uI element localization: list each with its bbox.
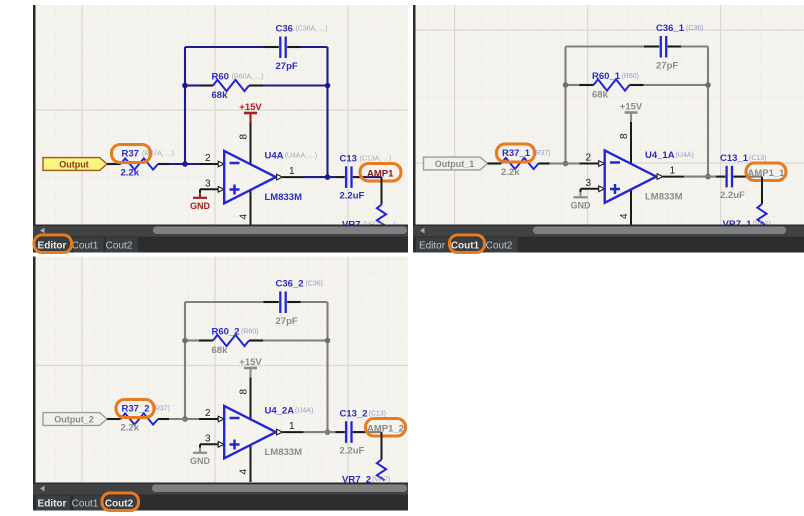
svg-text:2.2k: 2.2k (501, 167, 520, 178)
svg-text:2.2uF: 2.2uF (720, 190, 745, 201)
annotation ellipse around AMP1 (360, 164, 401, 182)
wire: feedback top net segment right (301, 46, 328, 48)
op-amp pin 1 lead (663, 176, 684, 178)
panel 1: schematic background (36, 5, 409, 225)
panel 3: tab bar (33, 495, 408, 511)
svg-text:68k: 68k (212, 345, 229, 356)
tab Cout1 (454, 238, 484, 253)
scrollbar left arrow (40, 486, 45, 492)
resistor R60_1 pins (580, 84, 594, 86)
svg-text:Cout2: Cout2 (486, 241, 513, 252)
svg-text:Cout1: Cout1 (72, 499, 99, 510)
svg-text:(C36): (C36) (686, 25, 704, 32)
svg-text:(U4AA, ...): (U4AA, ...) (285, 153, 318, 160)
svg-text:Editor: Editor (38, 499, 67, 510)
svg-text:AMP1_1: AMP1_1 (748, 168, 786, 179)
svg-text:4: 4 (619, 213, 630, 219)
svg-text:Cout2: Cout2 (106, 241, 133, 252)
svg-text:C36_1: C36_1 (656, 23, 685, 34)
scrollbar left arrow (420, 228, 425, 234)
resistor R37_1 body (501, 158, 539, 169)
scrollbar thumb (152, 485, 407, 493)
annotation ellipse around R37_1 (497, 144, 535, 162)
op-amp U4 pin 2 lead (580, 163, 600, 165)
tab Cout2 (106, 238, 138, 253)
resistor R37 body (121, 158, 159, 169)
capacitor C36_1 pins (644, 45, 659, 47)
wire: right vertical branch (707, 47, 709, 177)
plus input marker (230, 443, 240, 446)
svg-text:2.2k: 2.2k (121, 423, 140, 434)
wire: feedback top net segment right (681, 45, 708, 47)
svg-text:1: 1 (289, 166, 295, 177)
annotation ellipse around AMP1_1 (746, 163, 786, 181)
wire: R60 net right (263, 339, 328, 341)
svg-text:Output: Output (59, 160, 89, 170)
wire: net AMP1 stub (366, 431, 382, 433)
svg-text:27pF: 27pF (276, 61, 298, 72)
wire: R60 net left (185, 84, 199, 86)
annotation ellipse around AMP1_2 (366, 419, 406, 437)
wire: input net to pin 2 (550, 162, 580, 164)
pin 2 arrowhead (218, 416, 224, 422)
svg-text:Cout1: Cout1 (72, 241, 99, 252)
svg-text:Output_1: Output_1 (435, 159, 475, 169)
panel 1: left border (33, 5, 36, 253)
svg-text:R60: R60 (212, 72, 229, 83)
op-amp pin 1 lead (282, 176, 303, 178)
svg-text:(C36A, ...): (C36A, ...) (296, 26, 328, 33)
svg-text:1: 1 (670, 166, 676, 177)
pin 8 lead (630, 122, 632, 163)
pin 2 arrowhead (599, 161, 605, 167)
pin 3 arrowhead (599, 186, 605, 192)
resistor VR7 top pin (761, 177, 763, 204)
svg-text:(R60A, ...): (R60A, ...) (232, 74, 264, 81)
wire: feedback top net segment left (185, 301, 264, 303)
svg-text:2.2k: 2.2k (121, 168, 140, 179)
tab Editor (36, 496, 70, 511)
svg-text:(C13): (C13) (369, 411, 387, 418)
scrollbar left arrow (40, 228, 45, 234)
wire: feedback top net segment right (301, 301, 328, 303)
svg-text:8: 8 (239, 389, 250, 395)
svg-text:27pF: 27pF (656, 61, 678, 72)
svg-text:3: 3 (205, 178, 211, 189)
junction dots (182, 338, 188, 344)
wire: R60 net right (263, 84, 328, 86)
svg-text:2: 2 (205, 153, 211, 164)
svg-text:C36_2: C36_2 (276, 279, 304, 290)
op-amp U4 pin 3 lead (581, 188, 600, 190)
scrollbar thumb (533, 227, 786, 235)
op-amp U4 pin 2 lead (199, 418, 219, 420)
panel 1: tab bar (33, 237, 408, 253)
svg-text:GND: GND (190, 456, 211, 466)
svg-text:(U4A): (U4A) (295, 408, 313, 415)
port Output_2 (43, 413, 107, 426)
capacitor C13_2 pins (336, 431, 345, 433)
svg-text:LM833M: LM833M (265, 192, 303, 203)
op-amp U4_2 body (224, 406, 276, 458)
tab Editor (416, 238, 450, 253)
resistor R37 pins (107, 163, 121, 165)
wire: left vertical branch (184, 302, 186, 419)
svg-text:C13_2: C13_2 (340, 409, 368, 420)
svg-text:R60_1: R60_1 (592, 71, 621, 82)
svg-text:4: 4 (239, 214, 250, 220)
plus input marker (610, 188, 620, 191)
minus input marker (230, 162, 240, 165)
svg-text:2.2uF: 2.2uF (340, 191, 365, 202)
resistor R60 body (213, 80, 249, 91)
pin 4 lead (630, 190, 632, 227)
svg-text:Editor: Editor (38, 241, 67, 252)
capacitor C36 plates (279, 37, 281, 59)
svg-text:R37: R37 (122, 149, 139, 160)
ground symbol (193, 452, 207, 454)
resistor VR7_2 body (partial) (377, 460, 386, 481)
svg-text:C36: C36 (276, 24, 293, 35)
junction dots (182, 83, 188, 89)
op-amp U4 pin 3 lead (200, 188, 219, 190)
op-amp U4_1 body (605, 150, 657, 202)
svg-text:(VR7): (VR7) (372, 477, 390, 484)
annotation ellipse around active tab (102, 493, 139, 511)
port Output (43, 158, 107, 171)
tab Cout2 (106, 496, 138, 511)
svg-text:(U4A): (U4A) (676, 152, 694, 159)
svg-text:(C13): (C13) (749, 155, 767, 162)
minus input marker (230, 417, 240, 420)
svg-text:R37_1: R37_1 (502, 148, 531, 159)
svg-text:GND: GND (571, 201, 592, 211)
panel 2: schematic background (416, 5, 804, 225)
wire: R60 net left (185, 339, 199, 341)
capacitor C36_2 pins (264, 301, 279, 303)
op-amp pin 1 lead (282, 431, 303, 433)
pin 3 arrowhead (218, 187, 224, 193)
svg-text:(R60): (R60) (241, 329, 259, 336)
minus input marker (610, 161, 620, 164)
op-amp U4 pin 2 lead (199, 163, 219, 165)
capacitor C13_2 plates (345, 421, 347, 443)
plus input marker (230, 188, 240, 191)
tab Editor (36, 238, 70, 253)
port Output_1 (424, 157, 488, 170)
annotation ellipse around R37_2 (116, 400, 154, 418)
svg-text:Editor: Editor (419, 241, 446, 252)
gnd stem (199, 444, 201, 448)
svg-text:(C13A, ...): (C13A, ...) (360, 156, 392, 163)
svg-text:27pF: 27pF (276, 316, 298, 327)
wire: feedback top net segment left (185, 46, 264, 48)
svg-text:68k: 68k (592, 90, 609, 101)
svg-text:U4A: U4A (265, 151, 284, 162)
panel 2: left border (413, 5, 416, 253)
svg-text:8: 8 (239, 134, 250, 140)
wire: left vertical branch (184, 47, 186, 164)
resistor VR7 body (partial) (377, 205, 386, 226)
capacitor C36_1 plates (660, 36, 662, 58)
wire: output net to C13 (684, 176, 716, 178)
annotation ellipse around R37 (112, 145, 151, 163)
svg-text:2: 2 (205, 408, 211, 419)
resistor VR7 top pin (381, 177, 383, 204)
panel 2: horizontal scrollbar (413, 225, 804, 237)
panel 2: tab bar (413, 237, 804, 253)
ground symbol (193, 197, 207, 199)
svg-text:4: 4 (239, 469, 250, 475)
svg-text:R60_2: R60_2 (212, 327, 240, 338)
wire: R60 net left (566, 84, 580, 86)
svg-text:GND: GND (190, 201, 211, 211)
svg-text:68k: 68k (212, 90, 229, 101)
wire: left vertical branch (564, 47, 566, 164)
svg-text:Cout2: Cout2 (105, 499, 134, 510)
annotation ellipse around active tab (450, 235, 485, 253)
svg-text:AMP1_2: AMP1_2 (367, 423, 404, 434)
panel 3: schematic background (36, 257, 409, 483)
pin 1 arrowhead (277, 174, 283, 180)
svg-text:Output_2: Output_2 (54, 415, 94, 425)
svg-text:R37_2: R37_2 (122, 404, 150, 415)
capacitor C36_2 plates (279, 292, 281, 314)
resistor R60_2 body (213, 335, 249, 346)
svg-text:3: 3 (585, 178, 591, 189)
gnd stem (199, 189, 201, 193)
pin 8 lead (250, 378, 252, 419)
resistor R60_1 body (594, 79, 630, 90)
capacitor C13 plates (345, 166, 347, 188)
capacitor C36 pins (264, 46, 279, 48)
svg-text:+15V: +15V (620, 102, 643, 113)
pin 3 arrowhead (218, 442, 224, 448)
svg-text:(R60): (R60) (622, 73, 640, 80)
wire: input net to pin 2 (169, 418, 199, 420)
wire: output net to C13 (304, 176, 336, 178)
annotation ellipse around active tab (34, 235, 72, 253)
capacitor C13_1 plates (725, 166, 727, 188)
svg-text:(R37A, ...): (R37A, ...) (142, 151, 174, 158)
panel 3: left border (33, 257, 36, 511)
wire: R60 net right (644, 84, 709, 86)
wire: net AMP1 stub (366, 176, 382, 178)
wire: feedback top net segment left (566, 45, 645, 47)
svg-text:3: 3 (205, 433, 211, 444)
svg-text:8: 8 (619, 133, 630, 139)
junction dots (563, 82, 569, 88)
svg-text:LM833M: LM833M (265, 447, 303, 458)
svg-text:U4_1A: U4_1A (645, 150, 675, 161)
wire: net AMP1 stub (747, 176, 763, 178)
tab Cout1 (74, 238, 104, 253)
scrollbar thumb (153, 227, 407, 235)
svg-text:C13_1: C13_1 (720, 153, 749, 164)
svg-text:Cout1: Cout1 (451, 241, 480, 252)
resistor R60 pins (199, 84, 213, 86)
svg-text:(C36): (C36) (306, 281, 324, 288)
resistor R37_2 body (121, 413, 159, 424)
pin 1 arrowhead (657, 174, 663, 180)
svg-text:2.2uF: 2.2uF (340, 446, 365, 457)
resistor R37_1 pins (488, 162, 502, 164)
wire: input net to pin 2 (169, 163, 199, 165)
tab Cout1 (74, 496, 104, 511)
svg-text:U4_2A: U4_2A (265, 406, 295, 417)
capacitor C13 pins (336, 176, 345, 178)
capacitor C13_1 pins (716, 176, 725, 178)
resistor R37_2 pins (107, 418, 121, 420)
panel 3: horizontal scrollbar (33, 483, 408, 495)
svg-text:+15V: +15V (239, 357, 262, 368)
pin 1 arrowhead (277, 429, 283, 435)
pin 2 arrowhead (218, 161, 224, 167)
wire: right vertical branch (326, 47, 328, 177)
svg-text:+15V: +15V (239, 102, 262, 113)
op-amp U4 body (224, 151, 276, 203)
pin 4 lead (250, 191, 252, 228)
svg-text:2: 2 (585, 153, 591, 164)
resistor R60_2 pins (199, 339, 213, 341)
pin 8 lead (250, 123, 252, 164)
pin 4 lead (250, 446, 252, 483)
op-amp U4 pin 3 lead (200, 443, 219, 445)
tab Cout2 (486, 238, 518, 253)
gnd stem (580, 189, 582, 193)
svg-text:1: 1 (289, 421, 295, 432)
svg-text:C13: C13 (340, 154, 357, 165)
svg-text:LM833M: LM833M (645, 191, 683, 202)
wire: output net to C13 (304, 431, 336, 433)
resistor VR7 top pin (381, 432, 383, 459)
panel 1: horizontal scrollbar (33, 225, 408, 237)
resistor VR7_1 body (partial) (757, 204, 766, 225)
ground symbol (574, 196, 588, 198)
wire: right vertical branch (326, 302, 328, 432)
